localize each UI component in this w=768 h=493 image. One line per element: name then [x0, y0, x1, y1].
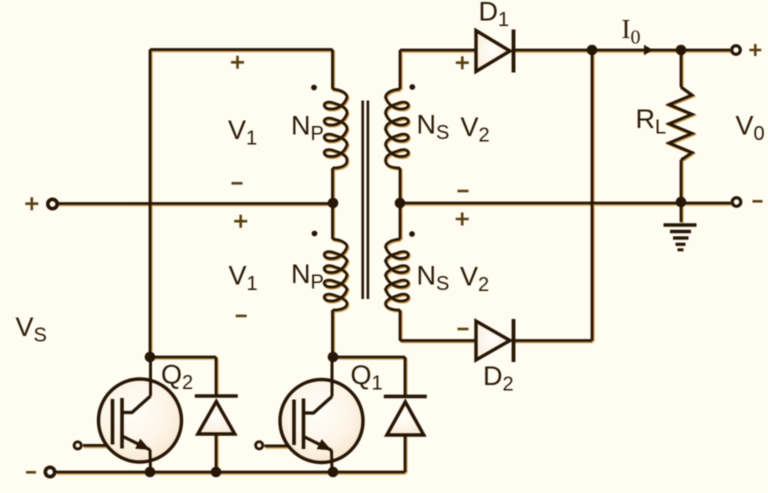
- minus V1 lower: [236, 315, 247, 318]
- ground symbol: [664, 223, 697, 226]
- output - terminal: [732, 198, 741, 207]
- wire: wire D2 cathode to right vertical: [514, 339, 593, 342]
- minus V2 lower: [458, 328, 469, 331]
- minus input: [26, 471, 36, 474]
- wire: primary upper top lead: [331, 50, 334, 90]
- wire: secondary lower top lead: [399, 203, 402, 239]
- plus output: [749, 44, 761, 56]
- output + terminal: [732, 46, 741, 55]
- wire: primary lower top lead: [331, 203, 334, 239]
- plus input: [25, 197, 38, 210]
- wire: secondary lower bottom lead: [399, 310, 402, 341]
- warm halo under-strokes: [57, 51, 732, 474]
- Q2 gate terminal: [74, 442, 81, 449]
- wire: RL bottom lead: [680, 160, 683, 202]
- transistor Q1 (IGBT): [280, 380, 363, 463]
- phase dot NS upper: [409, 84, 415, 90]
- Q2 clamp diode: [195, 394, 238, 398]
- junction node Q2 diode anode: [211, 467, 222, 478]
- transformer core: [363, 101, 368, 300]
- wire: primary upper bottom lead: [331, 168, 334, 203]
- wire: Q1 gate lead: [265, 444, 295, 447]
- plus V2 lower: [456, 213, 469, 226]
- wire: Q1 clamp diode upper lead: [404, 357, 407, 396]
- junction node Q1 collector: [328, 352, 339, 363]
- junction node Q2 collector: [145, 352, 156, 363]
- winding NP lower (primary): [324, 239, 347, 310]
- wire: Q2 clamp diode lower lead: [215, 434, 218, 472]
- input - terminal: [45, 467, 54, 476]
- transistor Q2 (IGBT): [99, 379, 182, 462]
- wire: Q1 clamp diode lower lead: [404, 435, 407, 472]
- wire: wire D1 cathode to output+: [513, 49, 730, 52]
- wire: mid rail left (Vs+ to center tap): [56, 202, 333, 205]
- minus V2 upper: [458, 190, 469, 193]
- input + terminal: [48, 199, 57, 208]
- wire: secondary upper top lead: [399, 50, 402, 89]
- winding NS upper (secondary): [386, 89, 409, 168]
- minus output: [753, 200, 763, 203]
- winding NS lower (secondary): [386, 239, 409, 310]
- phase dot NS lower: [409, 231, 415, 237]
- diode D1: [476, 31, 510, 72]
- junction node RL bottom: [676, 197, 687, 208]
- current arrow I0: [644, 45, 653, 55]
- wire: Q2 clamp diode upper lead: [215, 357, 218, 396]
- wire: Q1 clamp diode branch top wire: [333, 356, 405, 359]
- wire: RL top lead: [680, 50, 683, 87]
- wire: secondary upper bottom lead: [399, 168, 402, 203]
- plus V2 upper: [456, 56, 469, 69]
- junction node center tap right: [395, 198, 406, 209]
- wire: Q2 gate lead: [83, 444, 113, 447]
- wire: left vertical rail: [149, 50, 152, 358]
- wire: right vertical wire (D1 out to D2 out): [591, 50, 594, 341]
- wire: bottom rail (Vs-): [56, 471, 405, 474]
- wire: secondary top wire to D1: [400, 49, 476, 52]
- plus V1 upper: [231, 56, 244, 69]
- junction node RL top: [676, 45, 687, 56]
- resistor RL: [669, 87, 692, 160]
- junction node Q1 emitter: [328, 467, 339, 478]
- wire: ground stub: [680, 202, 683, 222]
- minus V1 upper: [232, 182, 243, 185]
- phase dot NP upper: [311, 85, 317, 91]
- wire: wire to D2 anode: [400, 339, 476, 342]
- junction node center tap left: [328, 198, 339, 209]
- plus V1 lower: [234, 215, 247, 228]
- wire: top rail left: [150, 48, 333, 51]
- winding NP upper (primary): [324, 89, 347, 168]
- Q1 gate terminal: [256, 442, 263, 449]
- diode D2: [476, 321, 510, 360]
- wire: mid rail right (center tap to output-): [400, 202, 731, 205]
- wire: Q2 clamp diode branch top wire: [150, 356, 216, 359]
- junction node D1 output: [587, 45, 598, 56]
- phase dot NP lower: [312, 231, 318, 237]
- wire: primary lower bottom lead: [331, 310, 334, 357]
- Q1 clamp diode: [384, 395, 427, 399]
- junction node Q2 emitter: [145, 467, 156, 478]
